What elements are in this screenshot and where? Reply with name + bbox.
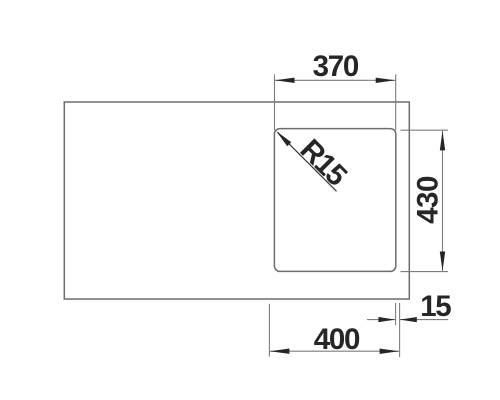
leader line for R15 — [278, 132, 337, 191]
arrowhead right of 400 — [380, 349, 400, 354]
dimension line 430 — [442, 131, 444, 272]
dimension line 15 right tail — [400, 319, 448, 321]
arrowhead right of 15 (pointing left at gap) — [400, 317, 417, 322]
arrowhead top of 430 — [440, 131, 445, 151]
arrowhead left of 400 — [270, 349, 290, 354]
svg-text:400: 400 — [314, 323, 360, 356]
svg-text:15: 15 — [420, 290, 451, 323]
dimension line 400 — [270, 350, 400, 352]
arrowhead bottom of 430 — [440, 252, 445, 272]
dimension line 370 — [275, 79, 396, 81]
extension line left of 15 dim — [395, 303, 397, 325]
svg-text:370: 370 — [313, 50, 359, 83]
extension line right of 370 dim — [395, 74, 397, 130]
svg-text:430: 430 — [411, 176, 444, 224]
arrowhead left of 15 (pointing right at gap) — [378, 317, 395, 322]
sink outer body rectangle — [64, 102, 409, 299]
leader arrowhead R15 (pointing to bowl corner) — [276, 131, 291, 146]
extension line right of 400 and 15 dims — [399, 303, 401, 357]
dimension line 15 left tail — [367, 319, 395, 321]
bowl rounded rectangle — [274, 129, 395, 272]
svg-text:R15: R15 — [294, 133, 353, 192]
extension line left of 400 dim — [268, 304, 270, 357]
arrowhead left of 370 — [275, 78, 295, 83]
extension line bottom of 430 dim — [401, 271, 449, 273]
extension line top of 430 dim — [401, 129, 449, 131]
extension line left of 370 dim — [274, 74, 276, 130]
arrowhead right of 370 — [376, 78, 396, 83]
